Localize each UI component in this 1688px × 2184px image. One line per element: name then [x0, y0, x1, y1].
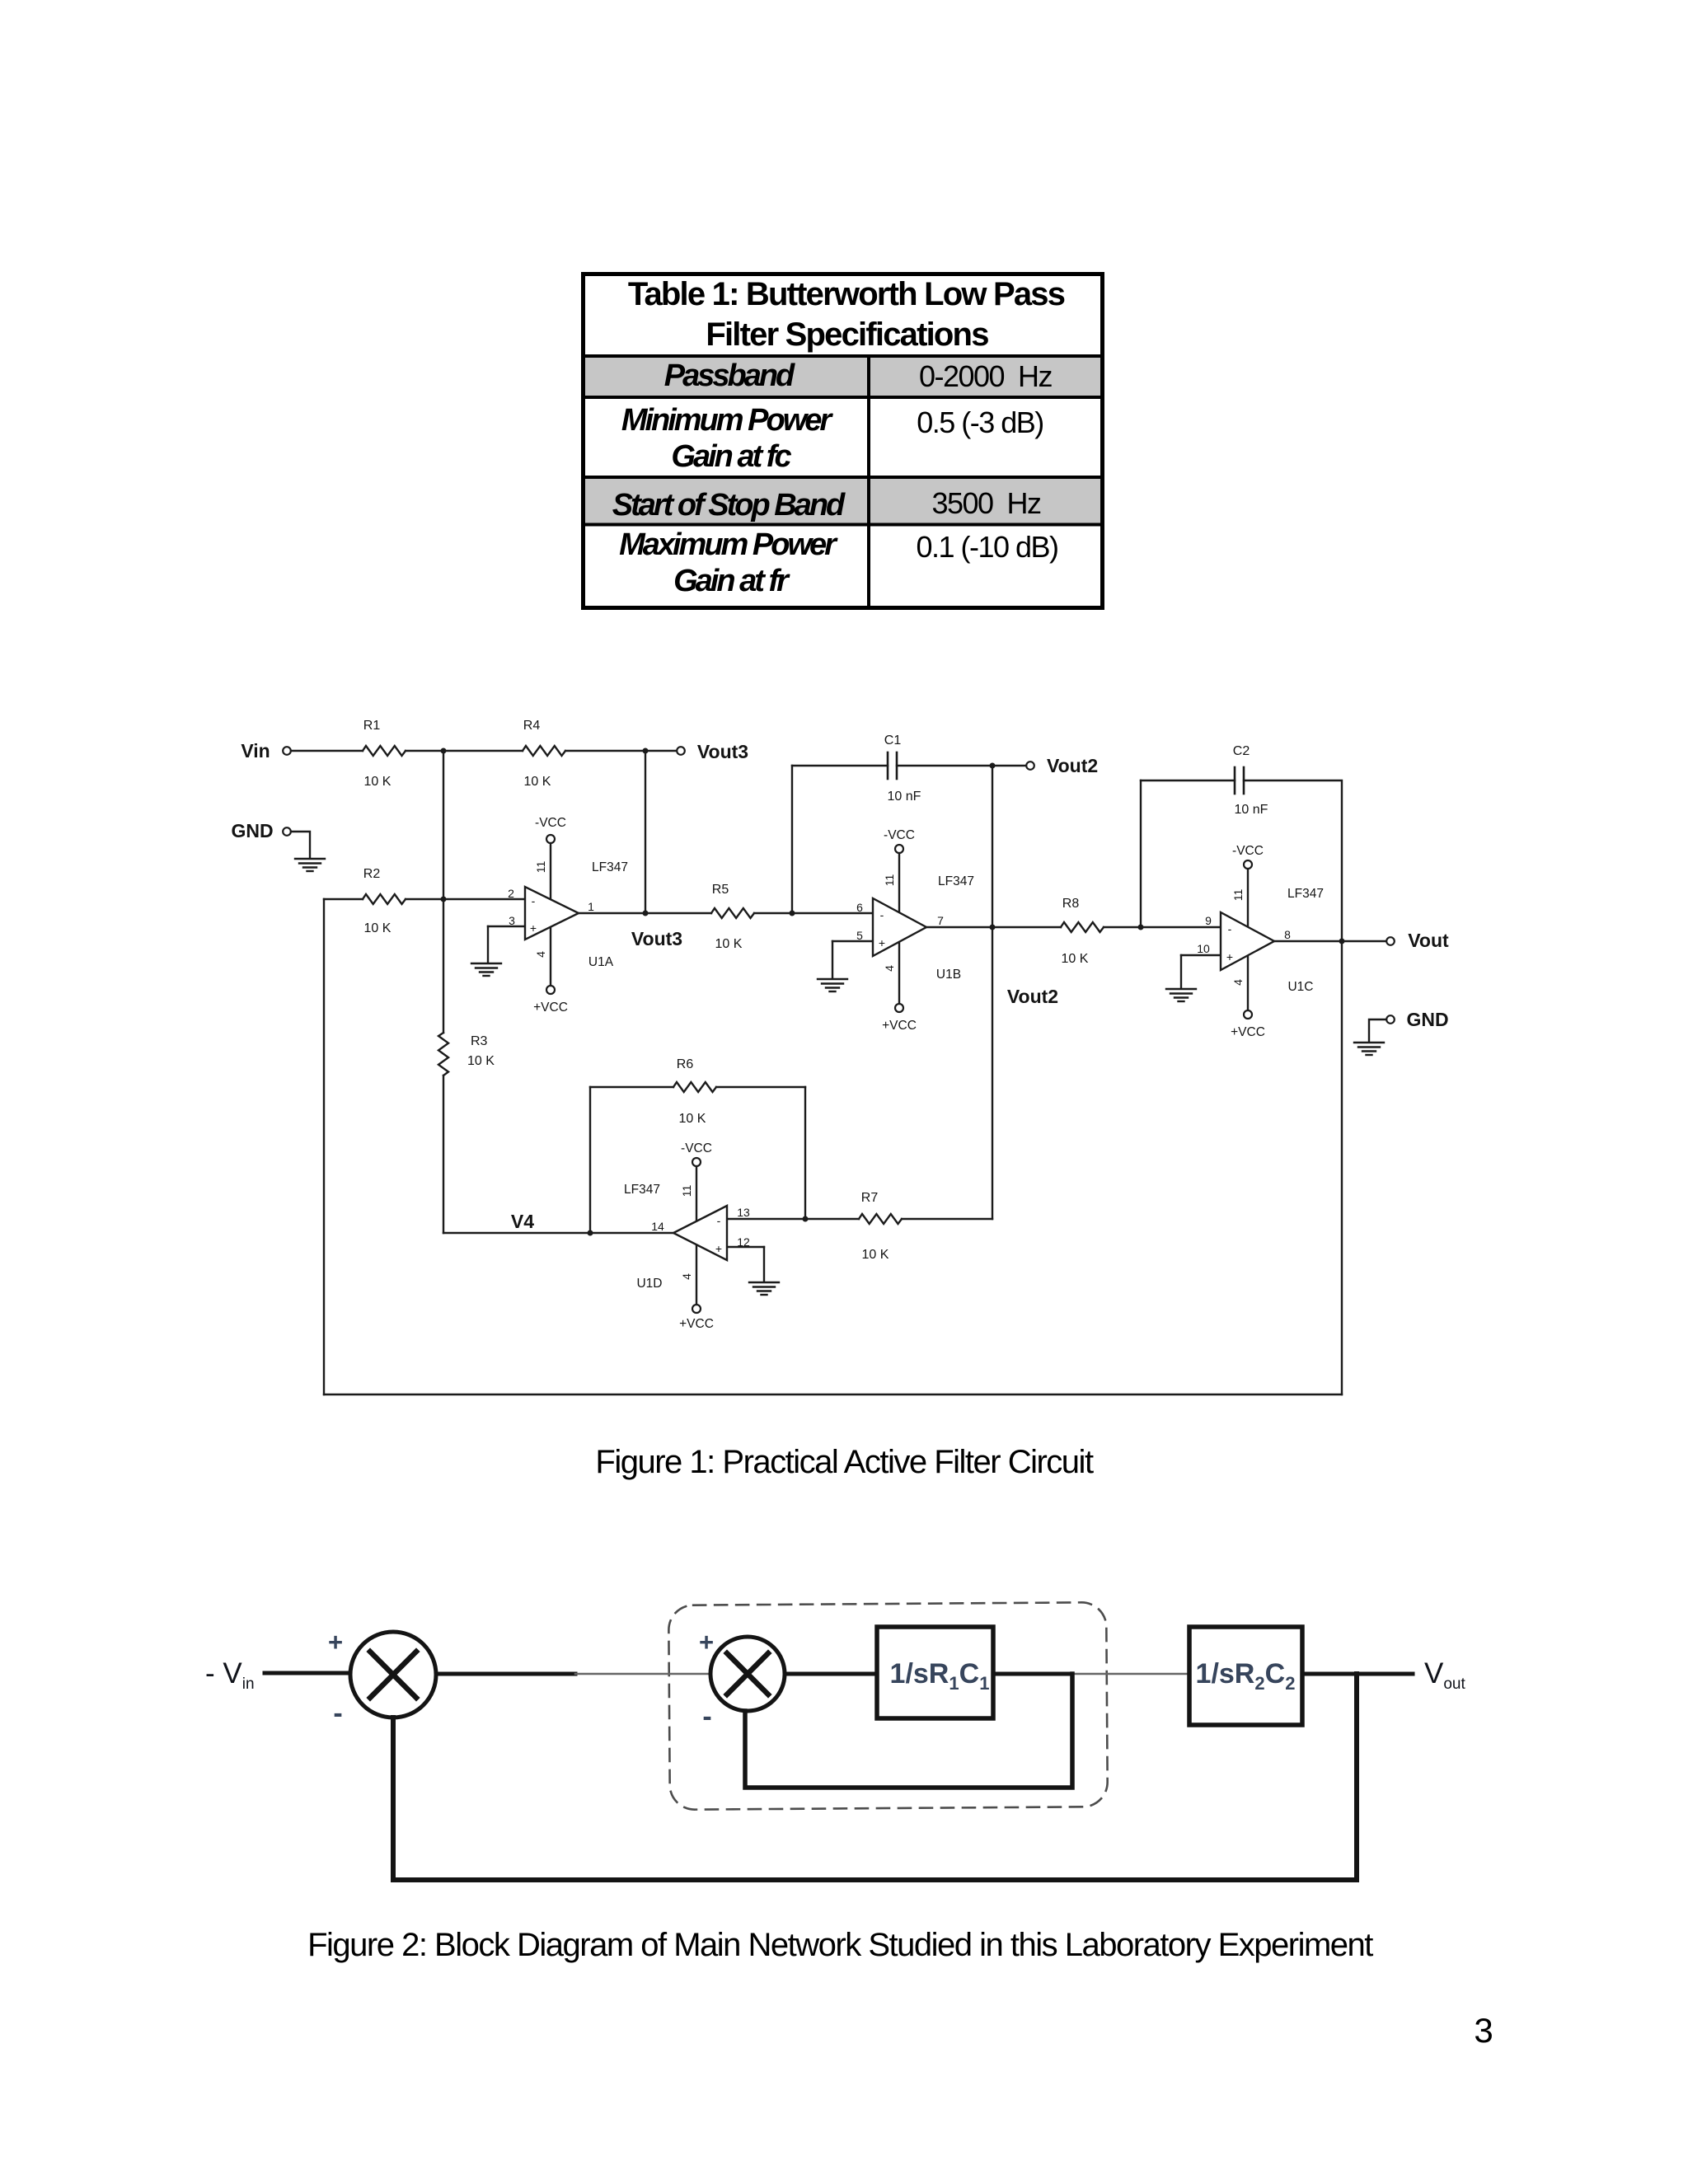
capacitor C2	[1235, 767, 1244, 794]
sign + at S1	[328, 1628, 343, 1657]
label Vout	[1408, 930, 1449, 951]
junction U1D output	[588, 1230, 593, 1236]
label R1 value	[363, 719, 392, 789]
pin 3 U1A	[509, 914, 515, 927]
wire Vin to R1	[291, 750, 363, 752]
wire feedback bottom	[324, 1394, 1342, 1395]
wire U1A +VCC	[550, 927, 551, 986]
wire U1B pin 5 to ground	[832, 941, 873, 977]
inner horizontal lines	[585, 354, 1100, 358]
junction R5 / C1 branch	[790, 911, 795, 916]
block 1/sR1C1	[877, 1627, 993, 1718]
svg-text:1/sR2C2: 1/sR2C2	[1196, 1658, 1296, 1694]
op-amp U1B	[873, 898, 926, 956]
wire U1C pin 10 to ground	[1181, 955, 1221, 987]
wire R6 loop right vertical	[804, 1087, 806, 1219]
summing junction S1	[350, 1632, 436, 1718]
ground symbol U1B pin5	[818, 979, 847, 991]
pin 4 U1A	[534, 951, 547, 958]
wire pin13 junction to R7	[805, 1218, 859, 1220]
label Vin	[241, 740, 270, 762]
pin 6 U1B	[856, 901, 863, 914]
label U1A	[588, 955, 614, 969]
column divider	[867, 354, 870, 606]
wire outer feedback	[393, 1674, 1357, 1880]
svg-text:+: +	[328, 1628, 343, 1657]
label +VCC U1A	[533, 1001, 568, 1015]
ground symbol left	[295, 859, 325, 871]
junction Vout	[1339, 939, 1345, 944]
wire Vin input	[265, 1671, 350, 1675]
op-amp U1C	[1221, 912, 1274, 970]
pin 8 U1C	[1284, 928, 1291, 941]
resistor R2	[363, 894, 406, 904]
outer border	[584, 274, 1103, 608]
node -VCC U1B	[895, 845, 903, 853]
wire Vout2 net vertical	[992, 766, 993, 1219]
wire block1 to junction	[993, 1672, 1072, 1676]
node +VCC U1B	[895, 1004, 903, 1012]
pin 11 U1A	[534, 861, 547, 874]
wire feedback left vertical	[323, 899, 325, 1394]
resistor R5	[711, 908, 754, 918]
wire U1D -VCC	[696, 1166, 697, 1222]
wire C1 branch vertical	[791, 766, 793, 913]
junction top rail at R1/R4	[441, 748, 447, 754]
gray band row 1	[585, 358, 1100, 396]
resistor R6	[673, 1082, 716, 1092]
node GND terminal left	[283, 827, 291, 836]
wire S2 to block 1	[785, 1672, 877, 1676]
label R6 value	[677, 1057, 706, 1126]
op-amp U1A	[525, 887, 579, 940]
wire feedback corner to R2	[324, 898, 363, 900]
wire thin segment S1-S2	[575, 1673, 711, 1675]
wire C2 to Vout node	[1244, 780, 1342, 941]
label Vout	[1424, 1657, 1465, 1693]
label C2 value	[1233, 744, 1268, 817]
pin 4 U1D	[680, 1273, 693, 1280]
opamp input signs U1B	[879, 908, 885, 949]
node GND terminal right	[1386, 1015, 1395, 1024]
wire C1 to Vout2 terminal	[897, 765, 1026, 766]
label +VCC U1C	[1231, 1025, 1265, 1039]
junction U1A output	[643, 911, 649, 916]
wire R6 loop top left	[590, 1086, 673, 1088]
pin 4 U1C	[1231, 979, 1245, 986]
pin 4 U1B	[883, 965, 896, 972]
label +VCC U1D	[679, 1317, 714, 1331]
wire Vout3 vertical	[645, 751, 646, 913]
wire S1 to S2	[436, 1672, 575, 1676]
capacitor C1	[888, 752, 897, 779]
label U1B	[936, 968, 961, 982]
label U1D	[636, 1277, 662, 1291]
pin 2 U1A	[508, 887, 514, 900]
label -VCC U1D	[681, 1141, 712, 1155]
wire R7 to Vout2 net	[902, 1218, 992, 1220]
node Vout terminal	[1386, 937, 1395, 945]
label R4 value	[523, 719, 551, 789]
resistor R4	[523, 746, 565, 756]
ground symbol U1A pin3	[471, 963, 501, 976]
wire U1A pin 3 to ground	[488, 926, 525, 962]
resistor R7	[859, 1214, 902, 1224]
label R5 value	[712, 883, 743, 951]
wire U1D pin 13	[727, 1218, 805, 1220]
pin 10 U1C	[1197, 942, 1210, 955]
wire R8 to U1C pin 9	[1104, 926, 1221, 928]
label -VCC U1A	[535, 816, 566, 830]
pin 11 U1B	[883, 874, 896, 887]
gray band row 3	[585, 479, 1100, 523]
svg-text:Vout: Vout	[1424, 1657, 1465, 1693]
ground symbol U1C pin10	[1166, 989, 1196, 1001]
svg-text:-: -	[702, 1701, 711, 1732]
wire U1D +VCC	[696, 1244, 697, 1305]
node +VCC U1C	[1244, 1010, 1252, 1019]
sign - at S1	[333, 1698, 342, 1729]
wire GND right stub	[1369, 1019, 1386, 1041]
label +VCC U1B	[882, 1019, 917, 1033]
block 1/sR2C2	[1189, 1627, 1302, 1725]
wire U1C +VCC	[1247, 956, 1249, 1010]
wire R6 loop top right	[716, 1086, 805, 1088]
label 1/sR1C1	[890, 1658, 990, 1694]
wire thin segment block1-block2	[1072, 1673, 1189, 1675]
resistor R8	[1061, 922, 1104, 932]
sign + at S2	[699, 1628, 714, 1657]
label V4	[511, 1211, 534, 1232]
label -VCC U1C	[1232, 844, 1264, 858]
wire R1 to R4	[406, 750, 523, 752]
svg-text:-: -	[333, 1698, 342, 1729]
label Vout2 top	[1047, 755, 1098, 776]
opamp input signs U1C	[1226, 922, 1233, 963]
opamp input signs U1A	[530, 894, 537, 935]
junction U1D pin13 / R6 / R7	[803, 1216, 809, 1222]
junction R8 / C2 branch	[1138, 925, 1144, 930]
label -VCC U1B	[884, 828, 915, 842]
junction Vout2 net top	[990, 763, 996, 769]
wire C1 branch top	[792, 765, 888, 766]
label LF347 U1C	[1287, 887, 1324, 901]
wire U1C output to Vout terminal	[1274, 940, 1386, 942]
ground symbol right	[1354, 1043, 1384, 1055]
wire R5 to U1B pin 6	[754, 912, 873, 914]
label R2 value	[363, 867, 392, 935]
pin 9 U1C	[1205, 914, 1212, 927]
svg-text:+: +	[699, 1628, 714, 1657]
label U1C	[1287, 980, 1313, 994]
summing junction S2	[710, 1637, 785, 1711]
wire feedback right vertical	[1341, 941, 1343, 1394]
label 1/sR2C2	[1196, 1658, 1296, 1694]
label R8 value	[1062, 897, 1089, 966]
pin 14 U1D	[651, 1220, 664, 1233]
wire C2 branch vertical	[1140, 780, 1142, 927]
wire R6 loop left vertical	[589, 1087, 591, 1233]
pin 11 U1C	[1231, 889, 1245, 902]
pin 11 U1D	[680, 1185, 693, 1197]
pin 5 U1B	[856, 929, 863, 942]
wire block2 to Vout	[1302, 1672, 1413, 1676]
wire U1A -VCC	[550, 843, 551, 899]
pin 1 U1A	[588, 900, 594, 913]
svg-text:- Vin: - Vin	[205, 1657, 255, 1693]
dashed subsystem box	[668, 1602, 1108, 1810]
resistor R1	[363, 746, 406, 756]
node Vin terminal	[283, 747, 291, 755]
junction top rail at Vout3	[643, 748, 649, 754]
label Vout3 top	[697, 741, 748, 762]
label R7 value	[861, 1191, 889, 1262]
wire vertical node A upper	[443, 751, 444, 1033]
wire GND stub	[291, 832, 310, 857]
junction R2 / node A	[441, 897, 447, 902]
pin 12 U1D	[737, 1235, 750, 1249]
node +VCC U1A	[546, 986, 555, 994]
sign - at S2	[702, 1701, 711, 1732]
label GND left	[231, 820, 273, 841]
label GND right	[1406, 1009, 1448, 1030]
wire vertical node A lower	[443, 1076, 444, 1233]
label LF347 U1A	[592, 860, 628, 874]
wire U1C -VCC	[1247, 869, 1249, 926]
wire U1B -VCC	[898, 853, 900, 912]
pin 13 U1D	[737, 1206, 750, 1219]
resistor R3	[438, 1033, 448, 1076]
label Vout2 lower	[1007, 986, 1058, 1007]
label LF347 U1B	[938, 874, 974, 888]
op-amp U1D	[673, 1206, 727, 1260]
wire U1B output	[926, 926, 1061, 928]
svg-text:1/sR1C1: 1/sR1C1	[890, 1658, 990, 1694]
label R3 value	[467, 1034, 495, 1068]
wire U1A output	[579, 912, 711, 914]
label C1 value	[884, 733, 921, 804]
node -VCC U1C	[1244, 860, 1252, 869]
wire U1D pin 12 to ground	[727, 1247, 764, 1281]
wire C2 branch top	[1141, 780, 1235, 781]
wire inner feedback	[745, 1674, 1072, 1788]
wire R2 to U1A pin 2	[406, 898, 525, 900]
label - Vin	[205, 1657, 255, 1693]
ground symbol U1D pin12	[749, 1282, 779, 1295]
wire U1B +VCC	[898, 942, 900, 1004]
wire R4 to Vout3 terminal	[565, 750, 677, 752]
label Vout3 at U1A output	[631, 928, 682, 949]
label LF347 U1D	[624, 1183, 660, 1197]
node Vout3 terminal	[677, 747, 685, 755]
opamp input signs U1D	[715, 1214, 722, 1255]
node -VCC U1D	[692, 1158, 701, 1166]
pin 7 U1B	[937, 914, 944, 927]
wire U1D output / node V4	[443, 1232, 673, 1234]
node Vout2 terminal	[1026, 762, 1034, 770]
node -VCC U1A	[546, 835, 555, 843]
node +VCC U1D	[692, 1305, 701, 1313]
junction U1B output / Vout2 net	[990, 925, 996, 930]
